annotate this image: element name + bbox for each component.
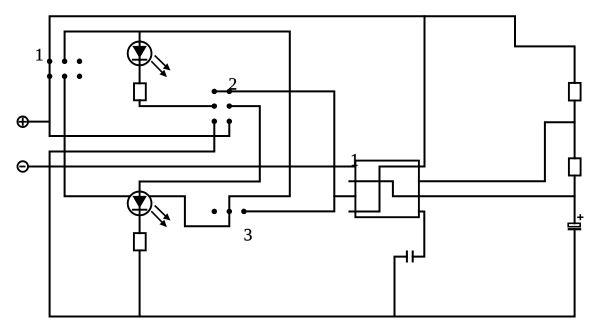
wire capacitor C2 left plate west and down to bottom border: [395, 257, 407, 317]
resistor R3: [569, 83, 581, 101]
wire resistor R2 bottom to bottom border: [139, 250, 141, 316]
wire sw2 row1 closed bridge east, down, west to sw3 right contact: [214, 91, 334, 211]
battery plus terminal: [17, 116, 28, 127]
resistor R2: [134, 233, 146, 250]
wire resistor R3 bottom down to resistor R4 top: [574, 101, 576, 159]
wire sw1 col2 top contact up and around right, down, west, through sw3 middle contact, back behind LED D2 to sw1 col2 bottom contact: [65, 32, 290, 227]
switch S1 contact dots: [47, 59, 82, 80]
wire resistor R1 bottom to sw2 row2 left contact: [140, 100, 215, 106]
wire branch west then down to IC U1 right middle pin: [419, 122, 575, 181]
wire sw2 row2 right contact east, down, west to LED D2 anode, down through D2 to resistor R2: [140, 106, 260, 233]
wire branch to IC U1 left middle pin: [334, 195, 355, 197]
switch S2 contact dots: [212, 89, 233, 124]
resistor R1: [134, 83, 146, 100]
wire IC U1 left pin 1 stub zigzag through box east to right rail: [349, 181, 574, 196]
battery minus terminal: [17, 161, 28, 172]
wire resistor R4 bottom down to capacitor C1 plus plate: [574, 176, 576, 224]
switch S3 contact dots: [212, 209, 247, 215]
wire battery plus terminal to left rail: [28, 121, 50, 123]
LED D2 light arrows: [151, 206, 169, 227]
capacitor C2: [407, 251, 413, 263]
wire outer loop from sw2 row3 right contact up across the top border to resistor R3: [50, 16, 575, 136]
label switch 3: [245, 229, 252, 241]
wire LED D1 anode from top rail down through D1 to resistor R1: [139, 32, 141, 84]
label IC 1: [352, 154, 358, 165]
label switch 2: [229, 78, 236, 90]
wire IC U1 bottom right stub down to capacitor C2 right plate: [413, 212, 425, 257]
wire from sw2 row3 left contact down, west, down the left edge, along bottom border, up to capacitor C1 minus plate: [50, 121, 575, 316]
label switch 1: [36, 49, 42, 60]
resistor R4: [569, 158, 581, 175]
wire IC U1 left pin 3 stub through box up to top border: [349, 16, 424, 211]
wire battery minus terminal east to IC U1 left edge: [28, 166, 355, 168]
LED D2 (white fill hides the wire passing behind): [128, 192, 152, 216]
electrolytic capacitor C1: [568, 214, 584, 229]
LED D1: [128, 42, 152, 66]
IC U1 box: [355, 161, 419, 218]
LED D1 light arrows: [151, 56, 169, 77]
